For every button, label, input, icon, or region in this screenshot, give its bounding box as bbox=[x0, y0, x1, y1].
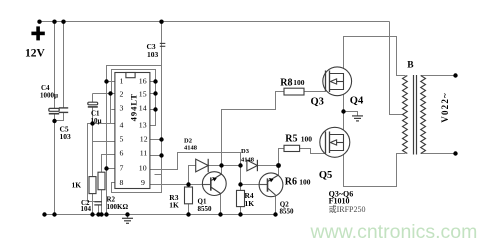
node C4 top bbox=[52, 20, 56, 24]
node rail gnd line bbox=[104, 212, 108, 216]
svg-text:100: 100 bbox=[299, 178, 311, 187]
wire node B down to R4 bbox=[240, 166, 242, 191]
svg-text:8550: 8550 bbox=[198, 205, 213, 213]
svg-text:4148: 4148 bbox=[184, 145, 198, 152]
transistor Q2 bbox=[259, 173, 283, 197]
node C5 top bbox=[61, 20, 65, 24]
node rail ground sym bbox=[125, 212, 129, 216]
wire pin 15 stub bbox=[150, 93, 156, 95]
wire top +12V rail bbox=[40, 21, 390, 23]
MOSFET Q5 bbox=[320, 127, 350, 157]
capacitor C1 bbox=[88, 102, 98, 107]
svg-text:1K: 1K bbox=[72, 180, 82, 189]
wire Q2 base bbox=[241, 184, 260, 186]
node pin12 bbox=[159, 137, 163, 141]
wire Q1 emitter lead up bbox=[221, 166, 223, 175]
svg-text:R6: R6 bbox=[285, 176, 297, 187]
svg-text:1: 1 bbox=[120, 76, 124, 85]
wire Q3 source to Q5 source bbox=[343, 90, 345, 135]
IC pin numbers left bbox=[120, 76, 124, 187]
capacitor C3 bbox=[160, 43, 166, 46]
svg-text:1K: 1K bbox=[169, 201, 179, 210]
wire pin 16 stub bbox=[150, 81, 156, 83]
wire D2 anode riser from R3 node bbox=[189, 166, 196, 185]
wire pin 11 stub bbox=[150, 155, 162, 157]
svg-text:B: B bbox=[407, 61, 414, 71]
wire second loop bbox=[112, 70, 156, 126]
IC U1 TL494 body bbox=[115, 73, 150, 189]
resistor R4 bbox=[237, 190, 245, 206]
wire R5 to Q5 gate bbox=[300, 149, 326, 154]
wire pin 7 stub bbox=[107, 168, 115, 170]
resistor 1K (pin5) bbox=[89, 177, 96, 194]
svg-text:Q4: Q4 bbox=[350, 96, 364, 107]
svg-text:16: 16 bbox=[139, 76, 147, 85]
battery + symbol 12V bbox=[31, 26, 44, 40]
node rail 1K bbox=[90, 212, 94, 216]
transformer B core bbox=[413, 75, 415, 155]
svg-text:11: 11 bbox=[140, 149, 148, 158]
transistor Q1 bbox=[202, 172, 226, 196]
svg-text:12V: 12V bbox=[25, 48, 46, 60]
wire Q3 drain to transformer primary top bbox=[344, 37, 406, 76]
svg-text:10µ: 10µ bbox=[91, 117, 102, 125]
svg-text:104: 104 bbox=[81, 205, 92, 213]
capacitor C2 bbox=[94, 202, 102, 205]
MOSFET Q3 bbox=[323, 67, 352, 96]
IC notch bbox=[126, 73, 135, 78]
wire Q1 collector lead down bbox=[220, 194, 222, 215]
node C4/C5 join bbox=[52, 119, 56, 123]
svg-text:12: 12 bbox=[140, 135, 148, 144]
node pin14 bbox=[153, 107, 157, 111]
wire C2 bottom stub bbox=[98, 205, 100, 215]
resistor R8 bbox=[284, 88, 304, 95]
resistor R3 bbox=[185, 187, 193, 204]
node pin16 bbox=[153, 79, 157, 83]
wire C5 branch bbox=[63, 22, 65, 108]
svg-text:或IRFP250: 或IRFP250 bbox=[329, 204, 366, 214]
svg-text:R5: R5 bbox=[285, 133, 297, 144]
node pin11 bbox=[159, 153, 163, 157]
wire C1 riser bbox=[92, 94, 94, 103]
wire bottom ground rail bbox=[45, 214, 276, 216]
wire riser node A to R8 bbox=[222, 92, 285, 166]
node pin15 bbox=[153, 91, 157, 95]
svg-text:10: 10 bbox=[139, 163, 147, 172]
wire R5 left lead bbox=[279, 149, 285, 166]
wire R2 bottom lead bbox=[101, 190, 103, 215]
svg-text:4148: 4148 bbox=[241, 156, 255, 163]
svg-text:13: 13 bbox=[139, 121, 147, 130]
svg-text:100: 100 bbox=[301, 134, 313, 143]
node 220V top terminal bbox=[453, 73, 457, 77]
node rail Q1 bbox=[218, 212, 222, 216]
wire secondary bottom lead bbox=[421, 153, 456, 155]
wire R3 bottom lead bbox=[188, 204, 190, 215]
diode D2 bbox=[196, 159, 209, 172]
node R3/D2 bbox=[186, 182, 190, 186]
node A Q1 emitter bbox=[219, 163, 223, 167]
ground at bottom rail bbox=[122, 215, 133, 224]
ground at Q4 bbox=[352, 116, 363, 121]
node 220V bottom terminal bbox=[453, 151, 457, 155]
wire pin 6 to R2 bbox=[102, 155, 115, 173]
svg-text:R8: R8 bbox=[280, 78, 292, 89]
diode D3 bbox=[247, 160, 258, 171]
wire D3 cathode to node bbox=[257, 165, 278, 167]
wire secondary top lead bbox=[421, 75, 456, 77]
node C Q2 emitter bbox=[276, 163, 281, 168]
svg-text:4: 4 bbox=[120, 121, 124, 130]
node rail C4 bbox=[52, 212, 56, 216]
IC pin numbers right bbox=[139, 76, 148, 187]
node pin1 bbox=[104, 79, 108, 83]
wire jog bbox=[155, 174, 162, 176]
wire pin 10 path bbox=[150, 153, 241, 170]
svg-text:100: 100 bbox=[293, 78, 305, 87]
svg-text:15: 15 bbox=[139, 90, 147, 99]
wire R8 to Q3 gate bbox=[304, 91, 326, 93]
node C1/pin4 bbox=[90, 121, 94, 125]
svg-text:1000µ: 1000µ bbox=[40, 91, 58, 99]
node B D3 anode bbox=[238, 163, 242, 167]
wire 1K bottom lead bbox=[92, 194, 94, 215]
wire pin 3 stub bbox=[111, 109, 115, 111]
node pin2 bbox=[108, 91, 112, 95]
wire ground line pin1-pin7 bbox=[106, 66, 108, 215]
svg-text:www.cntronics.com: www.cntronics.com bbox=[310, 221, 478, 243]
wire pin 1 stub bbox=[107, 81, 115, 83]
svg-text:8550: 8550 bbox=[280, 207, 295, 215]
node 12V+ bbox=[37, 20, 41, 24]
svg-text:D3: D3 bbox=[241, 148, 250, 155]
wire pin 2 to C1 bbox=[93, 93, 115, 95]
wire pin 8 under-IC loop bbox=[112, 183, 162, 193]
wire Q4 ground stub bbox=[344, 112, 358, 116]
transformer B primary winding bbox=[403, 76, 408, 154]
svg-text:1K: 1K bbox=[245, 199, 255, 208]
svg-text:103: 103 bbox=[60, 132, 72, 141]
node rail left end bbox=[42, 212, 46, 216]
wire outer loop top bbox=[107, 66, 162, 82]
svg-text:6: 6 bbox=[120, 149, 124, 158]
wire Q2 collector lead down bbox=[275, 195, 277, 215]
node C3 top bbox=[159, 20, 163, 24]
transformer B secondary winding bbox=[421, 76, 426, 154]
wire pin 9 to Q1 base bbox=[150, 184, 203, 186]
svg-text:V022~: V022~ bbox=[440, 92, 450, 123]
node rail R2 bbox=[99, 212, 103, 216]
wire C1 lead down to 1K bbox=[92, 107, 94, 176]
resistor R5 bbox=[284, 145, 300, 151]
wire pin 4 to C2 bbox=[88, 124, 115, 202]
svg-text:D2: D2 bbox=[184, 137, 192, 144]
svg-text:9: 9 bbox=[141, 178, 145, 187]
node rail C2 bbox=[96, 212, 100, 216]
wire pin 14 stub bbox=[150, 109, 156, 111]
svg-text:494LT: 494LT bbox=[129, 93, 139, 121]
svg-text:3: 3 bbox=[120, 103, 124, 112]
svg-text:2: 2 bbox=[120, 90, 124, 99]
node Q3/Q5 source bbox=[341, 109, 345, 113]
svg-text:5: 5 bbox=[120, 135, 124, 144]
svg-text:103: 103 bbox=[147, 50, 159, 59]
wire +12V to transformer center tap bbox=[390, 22, 404, 115]
node rail R4 bbox=[238, 212, 242, 216]
node rail Q2 bbox=[273, 212, 277, 216]
wire pin 5 bbox=[93, 141, 115, 143]
wire Q2 emitter lead up bbox=[278, 166, 280, 176]
node Q2 base bbox=[238, 182, 242, 186]
wire pin2-pin4 vertical bbox=[110, 94, 112, 124]
svg-text:Q3: Q3 bbox=[311, 97, 324, 108]
capacitor C5 bbox=[59, 108, 68, 113]
node pin7 bbox=[104, 166, 108, 170]
wire D2 cathode run bbox=[208, 165, 240, 167]
svg-text:8: 8 bbox=[120, 178, 124, 187]
node rail R3 bbox=[186, 212, 190, 216]
wire C4 branch bbox=[54, 22, 56, 109]
capacitor C4 bbox=[49, 108, 59, 113]
resistor R2 bbox=[98, 172, 105, 190]
wire R4 bottom lead bbox=[240, 207, 242, 215]
svg-text:14: 14 bbox=[139, 103, 147, 112]
svg-text:100KΩ: 100KΩ bbox=[107, 203, 129, 211]
svg-text:7: 7 bbox=[120, 163, 124, 172]
wire C3 / outer loop vertical bbox=[161, 22, 163, 185]
wire pin 12 stub bbox=[150, 139, 162, 141]
wire Q5 drain loop to primary bottom bbox=[344, 151, 406, 187]
svg-text:Q5: Q5 bbox=[319, 170, 332, 181]
